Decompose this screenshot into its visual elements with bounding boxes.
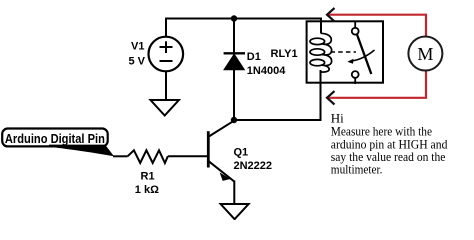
diode D1 xyxy=(224,53,245,70)
label 1N4004 xyxy=(247,65,286,77)
svg-text:1 kΩ: 1 kΩ xyxy=(135,184,159,196)
wire diode branch vertical xyxy=(233,19,235,121)
node red arrow top xyxy=(327,8,335,21)
wire red motor top xyxy=(328,15,426,37)
wire V1 to ground xyxy=(165,72,167,101)
resistor R1 xyxy=(128,150,168,163)
label 1 kOhm xyxy=(135,184,159,196)
relay RLY1 xyxy=(307,21,383,84)
label Q1 xyxy=(234,146,249,158)
svg-text:1N4004: 1N4004 xyxy=(247,65,286,77)
label 2N2222 xyxy=(234,160,273,172)
wire emitter to ground xyxy=(233,181,235,204)
node red arrow bottom xyxy=(327,91,335,104)
svg-text:V1: V1 xyxy=(131,41,144,53)
label R1 xyxy=(141,170,155,182)
svg-text:2N2222: 2N2222 xyxy=(234,160,273,172)
svg-text:D1: D1 xyxy=(247,51,261,63)
label V1 xyxy=(131,41,144,53)
svg-text:Q1: Q1 xyxy=(234,146,249,158)
wire resistor to base xyxy=(168,155,208,157)
node collector junction xyxy=(231,117,237,123)
label D1 xyxy=(247,51,261,63)
svg-text:RLY1: RLY1 xyxy=(271,48,298,60)
wire collector junction to relay coil bottom xyxy=(234,70,321,120)
node Arduino Digital Pin callout xyxy=(2,129,114,157)
ground (emitter) xyxy=(221,204,249,219)
svg-text:M: M xyxy=(417,44,433,64)
svg-text:5 V: 5 V xyxy=(128,56,145,68)
transistor Q1 xyxy=(208,121,234,182)
wire top rail from V1 to relay coil xyxy=(166,19,321,37)
voltage source V1 xyxy=(149,37,184,72)
label RLY1 xyxy=(271,48,298,60)
ground (V1) xyxy=(151,100,179,116)
svg-text:R1: R1 xyxy=(141,170,155,182)
wire red motor bottom xyxy=(328,71,426,98)
svg-text:multimeter.: multimeter. xyxy=(331,162,383,177)
motor M xyxy=(408,37,442,71)
node top rail / diode junction xyxy=(231,15,237,21)
wire base left xyxy=(113,155,128,157)
annotation Hi text block xyxy=(331,111,448,177)
label 5 V xyxy=(128,56,145,68)
svg-text:Arduino Digital Pin: Arduino Digital Pin xyxy=(5,131,105,146)
